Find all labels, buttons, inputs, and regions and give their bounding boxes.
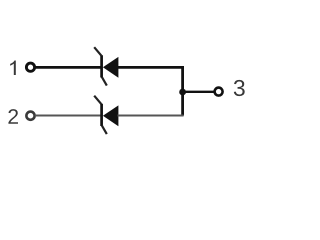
- terminal circle pin 2: [26, 112, 34, 120]
- D1 cathode bottom hook: [102, 77, 107, 86]
- wire junction to pin 3: [183, 91, 214, 93]
- wire D1 anode to corner: [118, 66, 185, 69]
- wire pin2 to D2 cathode: [35, 115, 102, 117]
- D1 cathode top hook: [94, 47, 101, 55]
- pin label 2: [8, 109, 18, 124]
- terminal circle pin 1: [26, 63, 34, 71]
- zener diode D1: [94, 47, 118, 85]
- D2 cathode bottom hook: [102, 126, 107, 135]
- pin label 1: [10, 61, 16, 75]
- junction dot node at pin 3 tap: [179, 89, 186, 96]
- zener diode D2: [94, 96, 118, 134]
- vertical wire from corner to bottom branch: [181, 66, 184, 116]
- D2 cathode top hook: [94, 96, 101, 104]
- wire pin1 to D1 cathode: [35, 66, 102, 69]
- wire D2 anode to vertical wire: [118, 115, 184, 117]
- D1 cathode bar: [100, 55, 103, 77]
- D1 anode triangle: [103, 57, 119, 78]
- terminal circle pin 3: [215, 88, 223, 96]
- pin label 3: [234, 80, 245, 96]
- D2 cathode bar: [100, 104, 103, 126]
- D2 anode triangle: [103, 105, 119, 126]
